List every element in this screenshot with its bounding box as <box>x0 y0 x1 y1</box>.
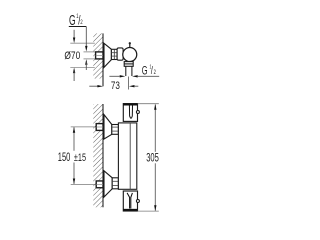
svg-text:150: 150 <box>58 152 71 165</box>
svg-text:/: / <box>151 65 153 77</box>
svg-text:G: G <box>142 65 148 78</box>
svg-text:±15: ±15 <box>74 152 86 165</box>
svg-text:305: 305 <box>146 152 159 165</box>
svg-text:2: 2 <box>154 69 156 76</box>
svg-text:Ø70: Ø70 <box>64 50 80 63</box>
svg-text:2: 2 <box>80 19 82 26</box>
svg-text:73: 73 <box>111 80 120 93</box>
